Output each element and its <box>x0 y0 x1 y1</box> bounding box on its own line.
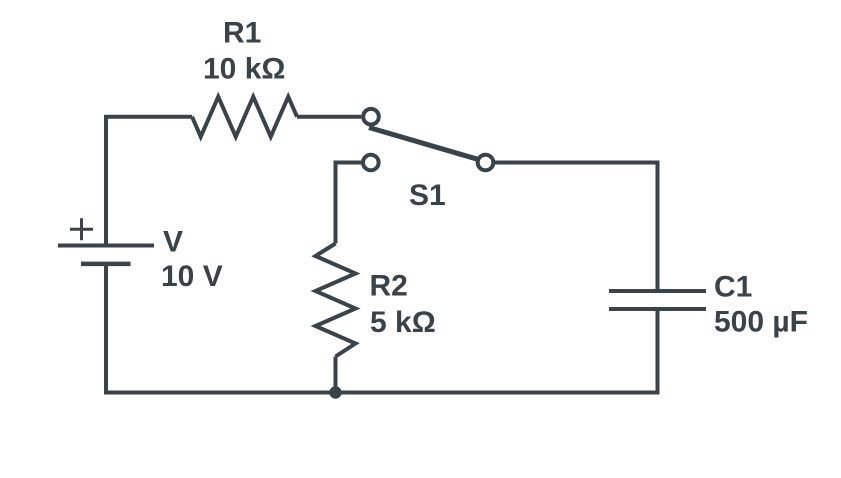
svg-text:10 kΩ: 10 kΩ <box>203 53 285 86</box>
svg-text:C1: C1 <box>714 271 752 304</box>
wire battery negative down to bottom rail <box>104 264 108 393</box>
resistor R1 <box>192 97 297 137</box>
wire switch throw A to right rail <box>495 163 658 292</box>
svg-text:10 V: 10 V <box>161 260 223 293</box>
resistor R2 <box>316 244 356 357</box>
capacitor C1 plates <box>609 289 706 293</box>
svg-text:R1: R1 <box>223 17 261 50</box>
wire top-left: left vertical upper + top horizontal to R1 <box>106 117 192 246</box>
battery plus sign <box>70 218 93 240</box>
wire C1 bottom to bottom rail <box>656 309 660 393</box>
svg-text:R2: R2 <box>370 270 408 303</box>
wire R1 to switch pole <box>297 115 361 119</box>
wire R2 bottom to junction <box>334 357 338 393</box>
battery V plates <box>58 244 154 248</box>
switch S1 pole contact <box>363 109 379 125</box>
wire bottom rail <box>104 391 660 395</box>
switch S1 throw contact A <box>478 155 494 171</box>
junction node <box>329 386 341 398</box>
svg-text:S1: S1 <box>409 179 446 212</box>
svg-text:V: V <box>163 226 183 259</box>
svg-text:5 kΩ: 5 kΩ <box>370 306 436 339</box>
switch S1 lever <box>369 128 478 160</box>
switch S1 throw contact B <box>363 155 379 171</box>
wire switch throw B to R2 top <box>336 163 362 244</box>
svg-text:500 µF: 500 µF <box>714 306 808 339</box>
